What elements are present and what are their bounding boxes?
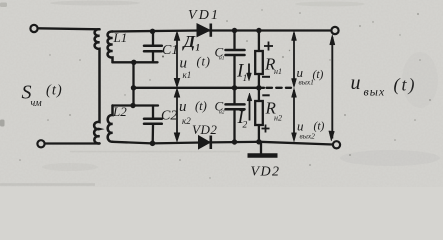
svg-text:2: 2 bbox=[243, 121, 248, 131]
capacitor Cn2 bbox=[226, 88, 245, 142]
node C2 bottom bbox=[150, 141, 156, 147]
svg-text:(t): (t) bbox=[46, 83, 63, 99]
svg-text:1: 1 bbox=[243, 74, 248, 84]
arrow I1 bbox=[247, 64, 252, 81]
svg-text:к1: к1 bbox=[183, 70, 192, 80]
node Rn1 bottom bbox=[256, 85, 261, 90]
label S chm bbox=[22, 82, 63, 110]
svg-text:u: u bbox=[179, 99, 187, 115]
svg-text:C2: C2 bbox=[161, 109, 177, 124]
edge artifacts bbox=[0, 3, 98, 186]
inductor L2 bbox=[108, 106, 113, 142]
arrow uvyh total bbox=[329, 35, 335, 141]
label uvyh big bbox=[351, 72, 417, 99]
node tank2 top bbox=[130, 103, 135, 108]
faint scan smudges bbox=[50, 1, 440, 167]
node Cn1 top bbox=[232, 28, 237, 33]
svg-text:(t): (t) bbox=[197, 55, 211, 69]
label I1 bbox=[236, 61, 247, 85]
label uk1(t) bbox=[180, 55, 211, 81]
svg-text:(t): (t) bbox=[314, 121, 325, 133]
arrow uvyh2 bbox=[292, 88, 297, 142]
arrow uvyh1 bbox=[292, 31, 297, 88]
svg-text:вых1: вых1 bbox=[299, 78, 314, 87]
label Rn2 bbox=[265, 99, 282, 123]
node Cn2 bottom bbox=[232, 139, 237, 144]
svg-text:u: u bbox=[351, 72, 361, 94]
svg-text:L2: L2 bbox=[112, 104, 127, 119]
node center tap / middle rail bbox=[131, 85, 136, 90]
wire top rail bbox=[113, 31, 332, 32]
label minus R2 bbox=[262, 94, 269, 96]
svg-text:к2: к2 bbox=[182, 116, 191, 126]
svg-text:н2: н2 bbox=[219, 110, 225, 116]
svg-text:н2: н2 bbox=[274, 114, 282, 123]
arrow uk1 bbox=[174, 31, 180, 88]
label uvyh2 small bbox=[297, 119, 325, 141]
wire tank1 bottom bbox=[113, 61, 158, 63]
wire center tap vertical bbox=[132, 62, 134, 105]
label Cn2 bbox=[215, 99, 225, 116]
terminal input bottom bbox=[37, 140, 44, 147]
node Cn1 bottom bbox=[232, 85, 237, 90]
inductor L1 bbox=[108, 31, 113, 62]
label Cn1 bbox=[215, 45, 225, 62]
transformer primary winding bbox=[94, 29, 99, 143]
svg-text:L1: L1 bbox=[113, 30, 128, 45]
terminal output bottom bbox=[333, 141, 340, 148]
label I2 bbox=[237, 107, 248, 131]
svg-text:вых: вых bbox=[364, 85, 386, 99]
svg-text:(t): (t) bbox=[313, 69, 324, 81]
svg-text:н1: н1 bbox=[219, 56, 225, 62]
label minus R1 bbox=[262, 76, 270, 78]
resistor Rn2 bbox=[255, 88, 263, 142]
svg-text:вых2: вых2 bbox=[300, 132, 316, 141]
paper background bbox=[0, 0, 443, 187]
label uk2(t) bbox=[179, 99, 207, 126]
wire bottom rail bbox=[113, 142, 333, 145]
label plus R1 bbox=[264, 42, 273, 51]
ground bbox=[248, 142, 278, 156]
wire middle rail dashed bbox=[267, 87, 292, 89]
capacitor C1 bbox=[144, 32, 162, 63]
svg-text:C1: C1 bbox=[162, 43, 178, 58]
svg-text:VD2: VD2 bbox=[192, 122, 217, 137]
svg-text:Д: Д bbox=[182, 32, 197, 51]
wire input top bbox=[38, 28, 100, 29]
svg-text:н1: н1 bbox=[274, 67, 282, 76]
capacitor C2 bbox=[144, 106, 162, 144]
terminal output top bbox=[331, 27, 338, 34]
label Rn1 bbox=[264, 55, 282, 77]
label uvyh1 small bbox=[297, 65, 324, 87]
terminal input top bbox=[30, 25, 37, 32]
svg-text:(t): (t) bbox=[195, 99, 207, 113]
node Rn1 top bbox=[256, 28, 261, 33]
arrow uk2 bbox=[174, 88, 180, 142]
paper speckles bbox=[19, 9, 431, 178]
node tank1 top / C1 bbox=[150, 29, 155, 34]
capacitor Cn1 bbox=[226, 31, 245, 88]
diode VD2 bbox=[199, 136, 211, 150]
wire tank2 top bbox=[113, 104, 159, 106]
label D1 bbox=[182, 32, 201, 53]
node Rn2 bottom bbox=[256, 139, 261, 144]
svg-text:1: 1 bbox=[196, 43, 201, 53]
arrow I2 bbox=[247, 93, 252, 121]
wire input bottom bbox=[46, 142, 100, 144]
svg-text:VD1: VD1 bbox=[188, 8, 220, 23]
diode VD1 bbox=[197, 24, 211, 37]
svg-text:VD2: VD2 bbox=[251, 165, 281, 180]
wire middle rail bbox=[134, 87, 265, 89]
node tank1 bottom / center tap bbox=[131, 60, 136, 65]
svg-text:чм: чм bbox=[31, 98, 43, 109]
label plus R2 bbox=[262, 125, 270, 133]
resistor Rn1 bbox=[255, 31, 263, 88]
